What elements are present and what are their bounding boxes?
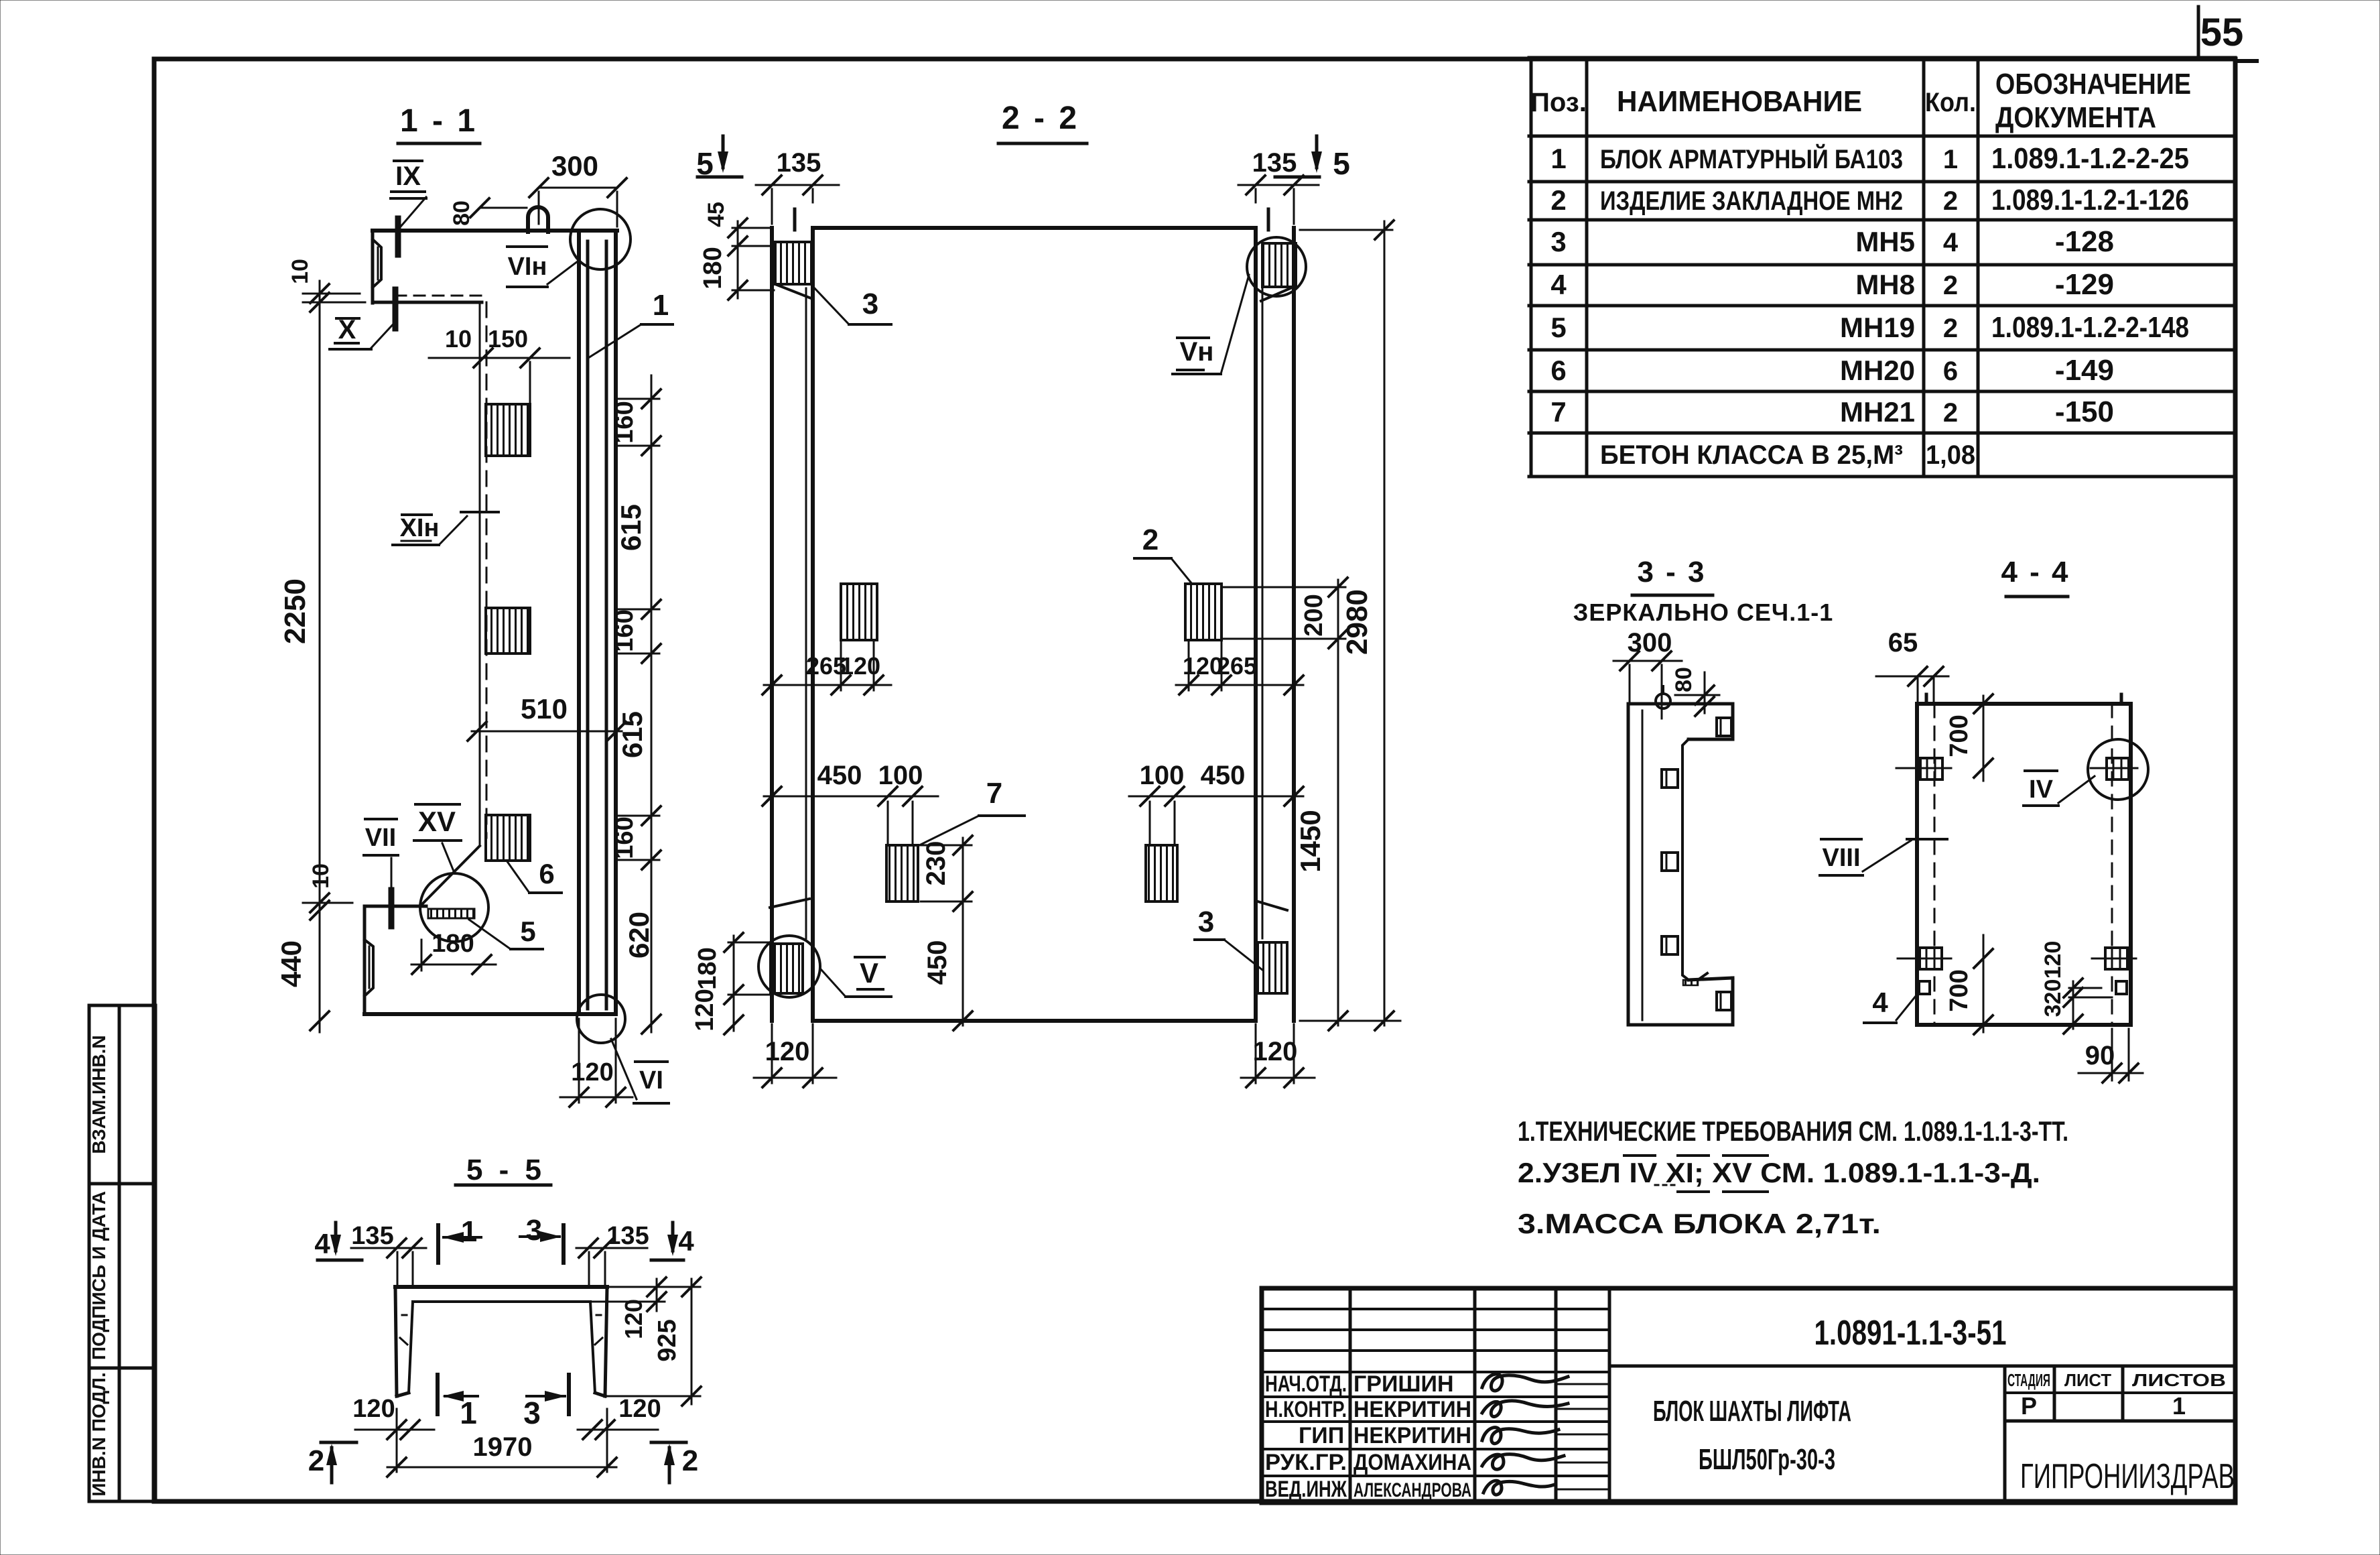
svg-text:ПОДПИСЬ И ДАТА: ПОДПИСЬ И ДАТА (88, 1191, 109, 1360)
svg-text:4: 4 (314, 1228, 330, 1259)
svg-text:2: 2 (1550, 184, 1566, 216)
svg-text:450: 450 (923, 940, 952, 985)
svg-text:ДОМАХИНА: ДОМАХИНА (1353, 1450, 1471, 1475)
svg-text:6: 6 (1943, 357, 1958, 386)
svg-text:3.МАССА БЛОКА 2,71т.: 3.МАССА БЛОКА 2,71т. (1518, 1208, 1881, 1239)
svg-text:БЛОК ШАХТЫ ЛИФТА: БЛОК ШАХТЫ ЛИФТА (1653, 1395, 1851, 1428)
svg-text:МН20: МН20 (1840, 355, 1915, 386)
svg-text:БШЛ50Гр-30-3: БШЛ50Гр-30-3 (1699, 1443, 1835, 1476)
svg-text:1: 1 (1550, 143, 1566, 174)
svg-text:4 - 4: 4 - 4 (2001, 556, 2070, 588)
svg-text:3: 3 (1198, 906, 1214, 938)
svg-text:VIII: VIII (1822, 844, 1860, 872)
svg-text:120: 120 (691, 989, 719, 1031)
svg-text:IV: IV (2029, 775, 2054, 804)
svg-text:2.УЗЕЛ IV XI; XV СМ. 1.089.1: 2.УЗЕЛ IV XI; XV СМ. 1.089.1-1.1-3-Д. (1518, 1157, 2040, 1188)
svg-text:1.0891-1.1-3-51: 1.0891-1.1-3-51 (1814, 1314, 2007, 1353)
svg-text:VII: VII (365, 824, 396, 852)
svg-text:Н.КОНТР.: Н.КОНТР. (1265, 1397, 1347, 1422)
svg-text:XV: XV (418, 806, 456, 837)
svg-text:-128: -128 (2055, 225, 2114, 258)
svg-text:3 - 3: 3 - 3 (1637, 556, 1706, 588)
svg-text:1,08: 1,08 (1926, 440, 1975, 470)
svg-text:3: 3 (1550, 226, 1566, 257)
svg-text:4: 4 (678, 1225, 694, 1257)
svg-text:2: 2 (1943, 314, 1958, 343)
svg-text:2: 2 (1943, 186, 1958, 216)
svg-text:1: 1 (1943, 145, 1958, 174)
svg-text:ВЕД.ИНЖ: ВЕД.ИНЖ (1265, 1477, 1347, 1502)
svg-text:100: 100 (878, 761, 923, 790)
svg-text:80: 80 (449, 200, 474, 226)
svg-text:300: 300 (1628, 628, 1672, 658)
svg-text:ДОКУМЕНТА: ДОКУМЕНТА (1995, 101, 2156, 134)
svg-text:1: 1 (2172, 1392, 2186, 1420)
svg-text:120: 120 (571, 1058, 613, 1086)
svg-text:IX: IX (395, 162, 421, 191)
svg-text:135: 135 (1252, 148, 1297, 178)
svg-text:1450: 1450 (1295, 810, 1326, 872)
svg-text:ОБОЗНАЧЕНИЕ: ОБОЗНАЧЕНИЕ (1995, 68, 2191, 101)
svg-text:615: 615 (616, 711, 648, 758)
svg-text:1970: 1970 (473, 1432, 533, 1462)
svg-text:120: 120 (620, 1299, 647, 1339)
svg-text:80: 80 (1671, 667, 1697, 692)
svg-text:ЛИСТ: ЛИСТ (2064, 1370, 2111, 1390)
svg-text:510: 510 (521, 693, 568, 725)
svg-text:120: 120 (1253, 1037, 1298, 1066)
svg-text:VI: VI (639, 1066, 663, 1095)
svg-text:450: 450 (1201, 761, 1246, 790)
svg-text:160: 160 (610, 401, 639, 443)
svg-text:МН8: МН8 (1855, 269, 1915, 300)
svg-text:3: 3 (862, 288, 878, 320)
svg-text:1: 1 (461, 1215, 477, 1248)
svg-text:100: 100 (1140, 761, 1185, 790)
svg-text:160: 160 (610, 816, 639, 859)
svg-text:НАЧ.ОТД.: НАЧ.ОТД. (1265, 1371, 1347, 1397)
svg-text:55: 55 (2200, 11, 2244, 54)
svg-text:300: 300 (551, 150, 598, 182)
svg-text:2: 2 (682, 1444, 698, 1477)
svg-text:МН19: МН19 (1840, 312, 1915, 343)
svg-text:5 - 5: 5 - 5 (466, 1154, 545, 1186)
svg-text:Кол.: Кол. (1925, 88, 1976, 117)
svg-text:1.ТЕХНИЧЕСКИЕ ТРЕБОВАНИЯ СМ. 1: 1.ТЕХНИЧЕСКИЕ ТРЕБОВАНИЯ СМ. 1.089.1-1.1… (1518, 1115, 2068, 1147)
svg-text:НЕКРИТИН: НЕКРИТИН (1353, 1397, 1471, 1422)
svg-text:ЛИСТОВ: ЛИСТОВ (2132, 1370, 2226, 1390)
svg-text:2250: 2250 (279, 578, 312, 644)
svg-text:ИЗДЕЛИЕ ЗАКЛАДНОЕ МН2: ИЗДЕЛИЕ ЗАКЛАДНОЕ МН2 (1600, 186, 1903, 216)
svg-text:7: 7 (1550, 396, 1566, 428)
svg-text:135: 135 (777, 148, 821, 178)
svg-text:2: 2 (1943, 398, 1958, 428)
svg-text:320: 320 (2040, 979, 2066, 1017)
svg-text:ГИПРОНИИЗДРАВ: ГИПРОНИИЗДРАВ (2020, 1457, 2235, 1496)
svg-text:265: 265 (1217, 652, 1257, 680)
svg-text:ГИП: ГИП (1299, 1423, 1344, 1448)
svg-text:СТАДИЯ: СТАДИЯ (2007, 1370, 2050, 1390)
svg-text:10: 10 (287, 259, 313, 284)
svg-text:VIн: VIн (508, 253, 547, 281)
svg-text:6: 6 (539, 858, 554, 889)
svg-text:700: 700 (1945, 969, 1973, 1011)
svg-text:НЕКРИТИН: НЕКРИТИН (1353, 1423, 1471, 1448)
svg-text:НАИМЕНОВАНИЕ: НАИМЕНОВАНИЕ (1617, 85, 1862, 118)
svg-text:3: 3 (526, 1214, 542, 1247)
svg-text:2 - 2: 2 - 2 (1002, 101, 1079, 136)
svg-text:160: 160 (610, 609, 639, 651)
svg-text:925: 925 (653, 1319, 681, 1361)
svg-text:РУК.ГР.: РУК.ГР. (1265, 1450, 1347, 1475)
svg-text:5: 5 (1550, 312, 1566, 343)
svg-text:7: 7 (986, 777, 1002, 810)
svg-text:-150: -150 (2055, 395, 2114, 428)
svg-text:45: 45 (704, 202, 729, 227)
svg-text:ВЗАМ.ИНВ.N: ВЗАМ.ИНВ.N (88, 1035, 109, 1154)
svg-text:2: 2 (1943, 271, 1958, 300)
svg-text:1 - 1: 1 - 1 (400, 103, 478, 139)
svg-text:3: 3 (523, 1395, 541, 1430)
svg-text:1.089.1-1.2-2-148: 1.089.1-1.2-2-148 (1991, 311, 2189, 344)
svg-text:10: 10 (308, 863, 334, 889)
svg-text:ИНВ.N ПОДЛ.: ИНВ.N ПОДЛ. (88, 1372, 109, 1496)
svg-text:230: 230 (921, 841, 951, 886)
svg-text:ЗЕРКАЛЬНО СЕЧ.1-1: ЗЕРКАЛЬНО СЕЧ.1-1 (1573, 599, 1833, 626)
svg-text:150: 150 (488, 325, 528, 353)
svg-text:90: 90 (2085, 1041, 2115, 1070)
svg-text:-149: -149 (2055, 354, 2114, 387)
svg-text:65: 65 (1888, 628, 1918, 658)
svg-text:135: 135 (351, 1222, 393, 1250)
svg-text:450: 450 (817, 761, 862, 790)
svg-text:700: 700 (1945, 714, 1973, 757)
svg-text:615: 615 (615, 504, 647, 551)
svg-text:Поз.: Поз. (1530, 88, 1587, 117)
svg-text:Vн: Vн (1180, 337, 1214, 367)
svg-text:X: X (338, 315, 356, 345)
svg-text:120: 120 (2040, 941, 2066, 979)
svg-text:2: 2 (308, 1444, 324, 1477)
svg-text:5: 5 (1333, 146, 1350, 181)
svg-text:Р: Р (2021, 1392, 2037, 1420)
svg-text:БЛОК АРМАТУРНЫЙ БА103: БЛОК АРМАТУРНЫЙ БА103 (1600, 143, 1903, 174)
svg-text:10: 10 (445, 325, 472, 353)
svg-text:620: 620 (623, 912, 655, 958)
svg-text:-129: -129 (2055, 268, 2114, 301)
svg-text:6: 6 (1550, 355, 1566, 386)
svg-text:2: 2 (1142, 523, 1159, 556)
svg-text:1.089.1-1.2-2-25: 1.089.1-1.2-2-25 (1991, 142, 2189, 175)
svg-text:МН21: МН21 (1840, 396, 1915, 428)
svg-text:440: 440 (275, 940, 307, 987)
svg-text:180: 180 (432, 930, 474, 958)
svg-text:БЕТОН КЛАССА В 25,М³: БЕТОН КЛАССА В 25,М³ (1600, 440, 1903, 470)
svg-text:200: 200 (1300, 594, 1328, 636)
svg-text:XIн: XIн (400, 514, 440, 542)
svg-text:5: 5 (520, 916, 535, 947)
svg-text:V: V (860, 957, 878, 989)
svg-text:180: 180 (699, 247, 727, 289)
svg-text:135: 135 (606, 1222, 649, 1250)
svg-text:120: 120 (352, 1395, 395, 1423)
svg-text:4: 4 (1872, 987, 1888, 1018)
svg-text:ГРИШИН: ГРИШИН (1353, 1371, 1454, 1397)
svg-text:120: 120 (618, 1395, 661, 1423)
svg-text:2980: 2980 (1341, 589, 1374, 655)
svg-text:180: 180 (693, 947, 722, 989)
svg-text:АЛЕКСАНДРОВА: АЛЕКСАНДРОВА (1353, 1479, 1471, 1501)
svg-text:1.089.1-1.2-1-126: 1.089.1-1.2-1-126 (1991, 184, 2189, 216)
svg-text:4: 4 (1943, 228, 1959, 257)
svg-text:4: 4 (1550, 269, 1567, 300)
svg-text:1: 1 (653, 289, 669, 322)
svg-text:МН5: МН5 (1855, 226, 1915, 257)
